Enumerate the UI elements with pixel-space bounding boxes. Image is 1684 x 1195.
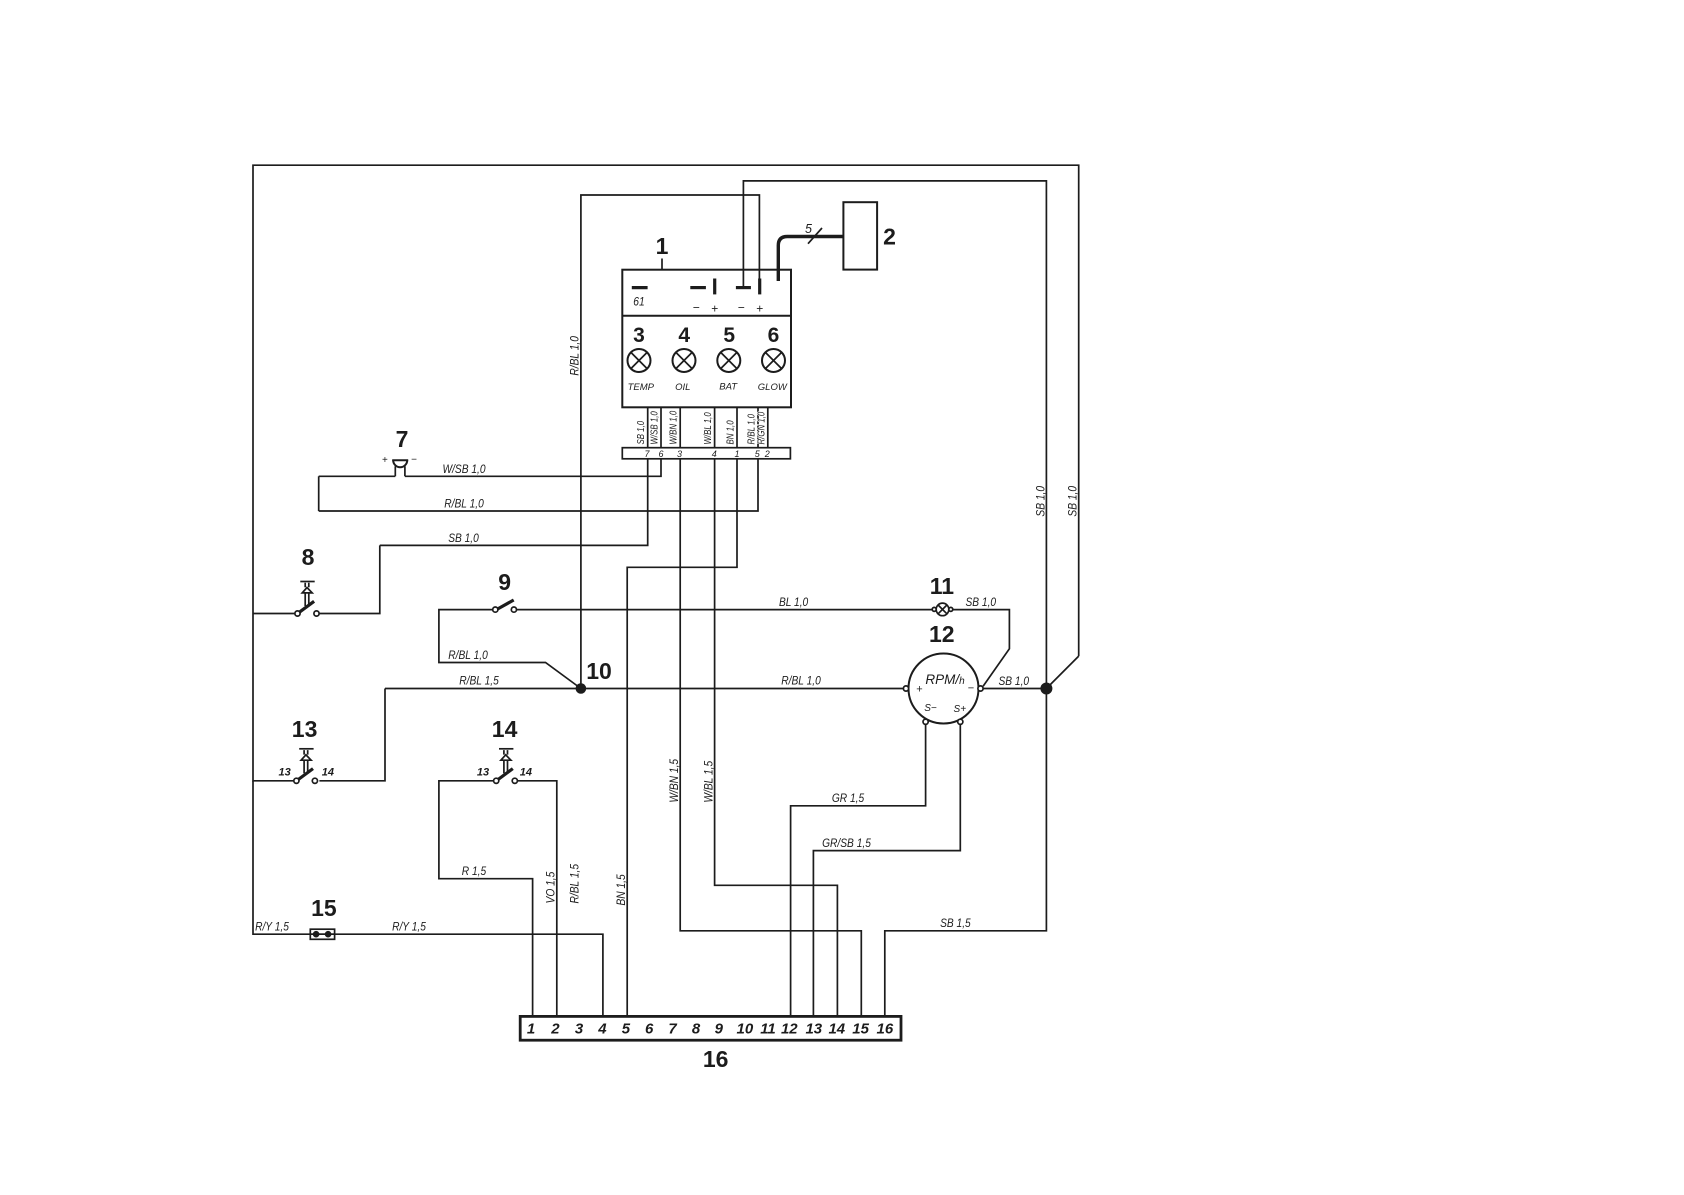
lamp L6 GLOW [758, 324, 788, 393]
wire link buzzer to R/BL [318, 476, 320, 511]
svg-text:R 1,5: R 1,5 [462, 864, 487, 878]
svg-text:GR 1,5: GR 1,5 [832, 791, 865, 805]
wire left drop to switch13 [253, 614, 294, 781]
glow plug unit 2 box [843, 202, 877, 269]
pin numbers X1 [644, 449, 769, 459]
junction dot SB [1040, 683, 1052, 695]
wire SB 1,5 to pin16 [885, 689, 1047, 1017]
svg-text:10: 10 [586, 658, 612, 684]
svg-text:14: 14 [492, 716, 518, 742]
wire stub SB pin7 [647, 407, 649, 447]
svg-text:GR/SB 1,5: GR/SB 1,5 [822, 836, 871, 850]
svg-text:SB 1,0: SB 1,0 [448, 531, 479, 545]
svg-text:BAT: BAT [719, 382, 738, 393]
svg-text:61: 61 [633, 295, 644, 309]
terminal 61 mark [632, 286, 648, 289]
svg-text:13: 13 [477, 767, 489, 779]
svg-text:4: 4 [712, 449, 717, 459]
svg-text:16: 16 [877, 1021, 894, 1038]
wire stub W/SB pin6 [660, 407, 662, 447]
svg-text:R/GN 1,0: R/GN 1,0 [755, 412, 767, 445]
svg-text:2: 2 [883, 224, 896, 250]
wire stub W/BL pin4 [714, 407, 716, 447]
svg-text:8: 8 [302, 544, 315, 570]
svg-text:BL 1,0: BL 1,0 [779, 595, 809, 609]
svg-text:12: 12 [781, 1021, 798, 1038]
svg-text:3: 3 [677, 449, 682, 459]
svg-text:R/BL 1,5: R/BL 1,5 [459, 673, 499, 687]
svg-text:−: − [738, 301, 745, 315]
svg-text:3: 3 [575, 1021, 584, 1038]
wire R/BL horizontal [319, 459, 758, 511]
terminal BAT plus pin [758, 279, 761, 295]
svg-text:W/BL 1,0: W/BL 1,0 [702, 412, 714, 444]
node panel label 1 [656, 233, 669, 270]
svg-text:R/BL 1,0: R/BL 1,0 [568, 336, 582, 376]
svg-text:14: 14 [828, 1021, 845, 1038]
svg-text:6: 6 [658, 449, 663, 459]
wire stub W/BN pin3 [679, 407, 681, 447]
svg-text:+: + [756, 302, 763, 316]
svg-text:+: + [711, 302, 718, 316]
svg-text:15: 15 [852, 1021, 869, 1038]
wire SB inner top run [743, 181, 1046, 689]
svg-text:7: 7 [396, 426, 409, 452]
svg-text:15: 15 [311, 895, 337, 921]
svg-text:10: 10 [737, 1021, 754, 1038]
wire outer frame top [253, 165, 1079, 656]
wire W/BL pin4 drop [715, 459, 838, 1017]
svg-text:5: 5 [723, 324, 735, 347]
svg-text:R/Y 1,5: R/Y 1,5 [255, 919, 289, 933]
svg-text:14: 14 [520, 767, 532, 779]
svg-text:2: 2 [764, 449, 770, 459]
svg-text:1: 1 [734, 449, 739, 459]
wire SB gauge to junction [983, 688, 1046, 690]
wire stub BN pin1 [736, 407, 738, 447]
wire W/SB horizontal [319, 459, 661, 477]
svg-text:BN 1,0: BN 1,0 [725, 420, 737, 444]
svg-text:SB 1,0: SB 1,0 [1034, 486, 1048, 517]
wire R/Y run [253, 781, 603, 1017]
svg-text:6: 6 [645, 1021, 654, 1038]
svg-text:14: 14 [322, 767, 334, 779]
wire switch9 left branch [439, 610, 581, 689]
svg-text:5: 5 [755, 449, 761, 459]
svg-text:4: 4 [597, 1021, 607, 1038]
svg-text:13: 13 [278, 767, 290, 779]
svg-text:5: 5 [622, 1021, 631, 1038]
svg-text:W/BN 1,0: W/BN 1,0 [668, 411, 680, 445]
switch 8 key start [295, 544, 319, 616]
svg-text:8: 8 [692, 1021, 701, 1038]
svg-text:12: 12 [929, 621, 955, 647]
svg-text:R/BL 1,0: R/BL 1,0 [444, 496, 484, 510]
wire GR from S-minus [791, 725, 926, 1017]
svg-text:13: 13 [292, 716, 318, 742]
wire switch8 to SB [319, 545, 380, 613]
terminal block 16 [520, 1016, 901, 1072]
switch 14 key [477, 716, 532, 783]
svg-text:−: − [693, 301, 700, 315]
svg-text:3: 3 [633, 324, 645, 347]
buzzer 7 [382, 426, 417, 476]
svg-text:VO 1,5: VO 1,5 [543, 871, 557, 903]
svg-text:R/BL 1,0: R/BL 1,0 [781, 673, 821, 687]
svg-text:W/BN 1,5: W/BN 1,5 [667, 759, 681, 803]
svg-text:BN 1,5: BN 1,5 [614, 874, 628, 905]
wire BL to lamp11 [517, 609, 932, 611]
connector 15 [310, 895, 337, 939]
svg-text:SB 1,0: SB 1,0 [635, 421, 647, 445]
svg-text:S+: S+ [954, 704, 967, 715]
wire diagonal SB to junction [1046, 656, 1078, 688]
lamp L4 OIL [673, 324, 696, 393]
wire stub R/GN pin2 [767, 407, 769, 447]
wire R/BL to RPM [581, 688, 903, 690]
lamp 11 [930, 573, 955, 616]
svg-text:−: − [411, 455, 417, 466]
svg-text:SB 1,0: SB 1,0 [1065, 486, 1079, 517]
svg-text:S−: S− [924, 703, 937, 714]
svg-text:+: + [916, 684, 922, 696]
terminal OIL minus bar [690, 286, 706, 289]
svg-text:9: 9 [715, 1021, 724, 1038]
wire switch13 riser [319, 689, 385, 781]
svg-text:11: 11 [930, 573, 955, 599]
svg-text:W/BL 1,5: W/BL 1,5 [701, 761, 715, 803]
switch 9 [493, 569, 517, 612]
terminal OIL plus pin [713, 279, 716, 295]
wire frame to switch8 [253, 613, 295, 615]
svg-text:+: + [382, 455, 388, 466]
switch 13 key [278, 716, 334, 783]
svg-text:SB 1,0: SB 1,0 [999, 674, 1030, 688]
cable slash mark [808, 228, 822, 244]
lamp L3 TEMP [628, 324, 655, 393]
instrument panel U1 box [622, 270, 791, 408]
terminal BAT minus bar [736, 286, 751, 289]
wire GR/SB from S-plus [813, 725, 960, 1017]
svg-text:W/SB 1,0: W/SB 1,0 [442, 462, 485, 476]
wire switch14 right branch VO [518, 781, 557, 1017]
wire R/BL 1,5 left [385, 688, 581, 690]
svg-text:OIL: OIL [675, 382, 690, 393]
wire SB horizontal [380, 459, 648, 546]
svg-text:SB 1,5: SB 1,5 [940, 916, 971, 930]
svg-text:6: 6 [768, 324, 780, 347]
svg-text:1: 1 [656, 233, 669, 259]
svg-text:4: 4 [678, 324, 690, 347]
wire BN pin1 drop [627, 459, 737, 1017]
wire W/BN pin3 drop [680, 459, 861, 1017]
wire lamp11 to RPM minus [953, 610, 1010, 687]
svg-text:1: 1 [527, 1021, 535, 1038]
wire switch14 left branch R [439, 781, 533, 1017]
svg-text:R/Y 1,5: R/Y 1,5 [392, 919, 426, 933]
svg-text:13: 13 [805, 1021, 822, 1038]
lamp L5 BAT [717, 324, 740, 393]
svg-text:RPM/h: RPM/h [925, 672, 965, 687]
svg-text:R/BL 1,5: R/BL 1,5 [568, 864, 582, 904]
wire glow feed thick [778, 237, 843, 282]
svg-text:R/BL 1,0: R/BL 1,0 [448, 648, 488, 662]
svg-text:7: 7 [668, 1021, 677, 1038]
RPM gauge 12 [903, 621, 983, 724]
svg-text:−: − [968, 683, 974, 695]
svg-text:16: 16 [703, 1046, 729, 1072]
svg-text:9: 9 [498, 569, 511, 595]
svg-text:SB 1,0: SB 1,0 [966, 595, 997, 609]
connector strip X1 under panel [622, 448, 790, 459]
node 10 junction [576, 658, 612, 694]
svg-text:TEMP: TEMP [628, 382, 655, 393]
wire R/BL top run [581, 195, 760, 689]
svg-text:W/SB 1,0: W/SB 1,0 [649, 411, 661, 444]
wire stub R/BL pin5 [757, 407, 759, 447]
svg-text:5: 5 [805, 222, 812, 236]
svg-text:GLOW: GLOW [758, 382, 788, 393]
svg-text:2: 2 [550, 1021, 560, 1038]
svg-text:11: 11 [760, 1021, 776, 1038]
svg-text:7: 7 [644, 449, 650, 459]
